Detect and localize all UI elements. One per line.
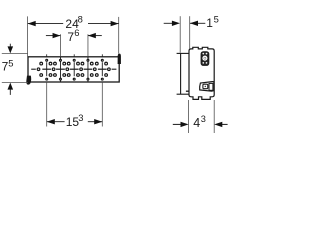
- svg-text:5: 5: [214, 14, 219, 25]
- plate outline: [28, 57, 119, 82]
- svg-text:4: 4: [193, 116, 200, 130]
- cross 5: [101, 62, 103, 76]
- cross 3: [73, 62, 75, 76]
- centerline end dashes: [31, 68, 36, 70]
- dimension 4-3: [173, 123, 181, 125]
- centerline crosses: [31, 54, 116, 82]
- hook step body-left bottom: [186, 90, 189, 92]
- svg-text:3: 3: [78, 112, 83, 123]
- svg-text:5: 5: [8, 57, 13, 68]
- cross 1: [46, 62, 48, 76]
- lower detail: clamp with circle: [200, 82, 214, 92]
- perforation holes: [37, 59, 110, 80]
- upper detail: rounded box with two circles: [201, 52, 209, 66]
- svg-text:6: 6: [74, 27, 79, 38]
- extension lines right drawing: [180, 16, 214, 133]
- thin plate strip: [177, 53, 189, 94]
- dimension 7-5 vertical: [9, 44, 11, 95]
- extension lines left drawing: [2, 16, 119, 126]
- svg-text:8: 8: [78, 13, 83, 24]
- dimension 7-6: [46, 35, 102, 37]
- body outline: [189, 47, 214, 99]
- svg-text:1: 1: [206, 16, 213, 30]
- cross 4: [87, 57, 89, 82]
- dimension 1-5: [164, 22, 173, 24]
- hook right-top: [118, 54, 121, 64]
- dimension 15-3: [47, 121, 103, 123]
- hook left-bottom: [26, 76, 31, 85]
- cross 2: [59, 57, 61, 82]
- dimension 24-8: [28, 23, 119, 25]
- svg-text:3: 3: [201, 114, 206, 124]
